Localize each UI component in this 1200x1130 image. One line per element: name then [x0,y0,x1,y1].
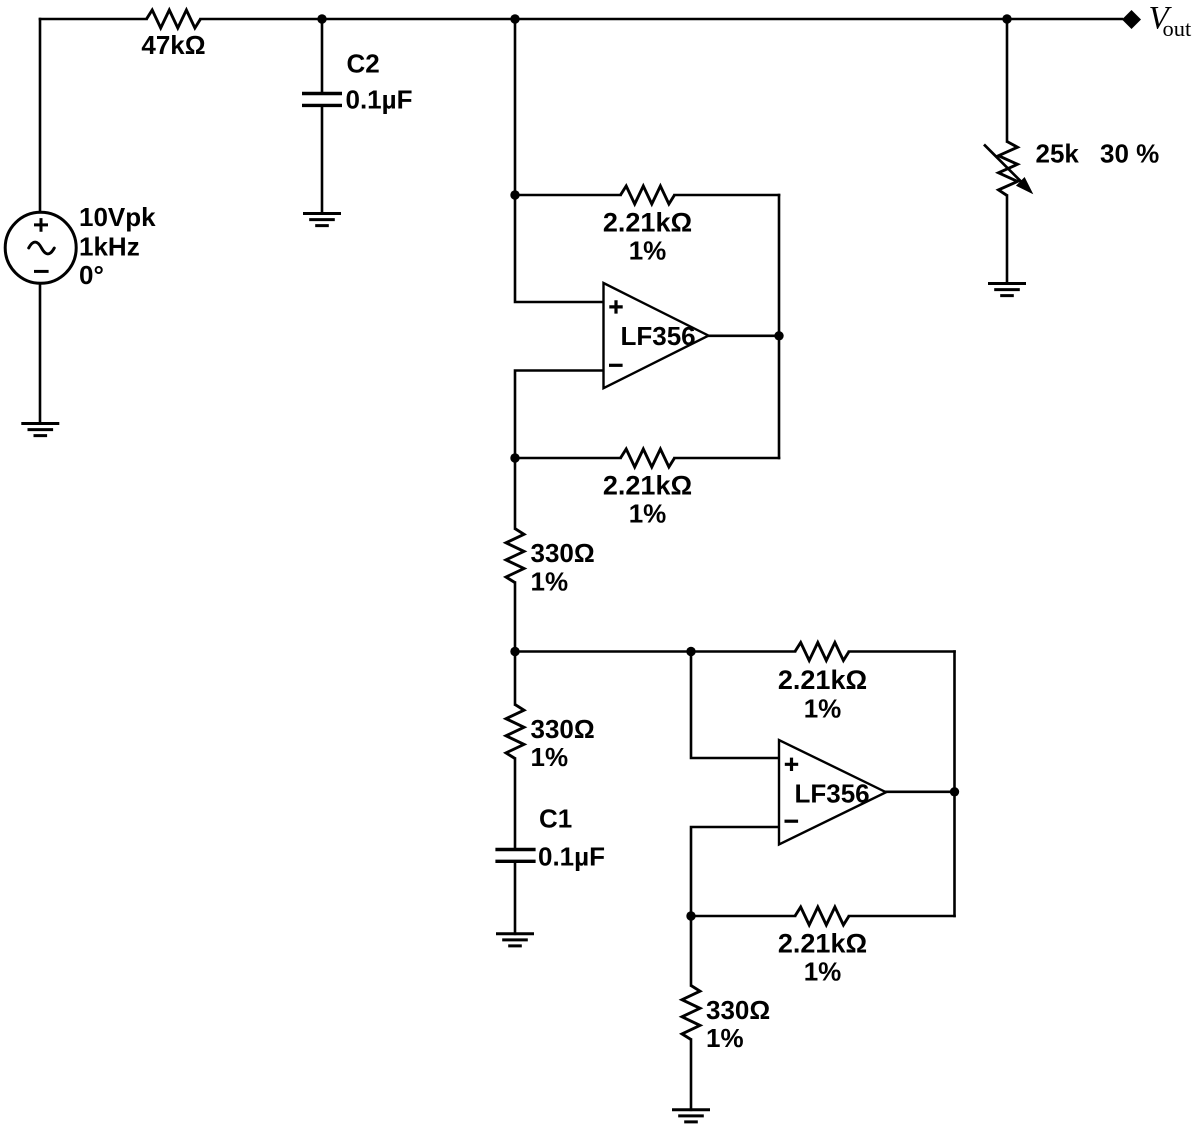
AC source sine wave [29,242,55,254]
op-amp U1 plus input sign [609,300,622,313]
wire R4 top lead [514,652,517,705]
op-amp U2 triangle [779,740,886,845]
resistor R3 330 zigzag [506,529,524,583]
wire stage2 to noninverting input [691,652,779,759]
svg-text:1%: 1% [531,742,569,772]
svg-text:0.1µF: 0.1µF [346,85,413,115]
wire top rail right of 47k [201,18,1123,21]
ground source [21,424,59,436]
resistor R2b 2.21k zigzag (stage1 bottom) [621,449,675,467]
capacitor C1 plates [495,850,535,862]
op-amp U1 triangle [604,283,709,388]
ground C2 [303,214,341,226]
junction node stage1 feedback top [510,190,519,199]
svg-text:out: out [1163,16,1193,41]
wire top rail left of 47k [40,18,147,21]
wire source top lead [39,19,42,212]
svg-text:1%: 1% [804,694,842,724]
resistor 47k zigzag [147,10,201,28]
wire source bottom lead [39,283,42,423]
svg-text:330Ω: 330Ω [706,995,770,1025]
wire R3 top lead [514,458,517,529]
wire stage2 inverting input [691,827,779,916]
svg-text:30 %: 30 % [1100,138,1159,168]
svg-text:2.21kΩ: 2.21kΩ [778,929,867,959]
op-amp U2 minus input sign [785,820,799,823]
svg-text:25k: 25k [1036,138,1080,168]
svg-text:0°: 0° [79,260,104,290]
potentiometer 25k zigzag [999,142,1018,196]
svg-text:C2: C2 [347,49,380,79]
junction node U1 output [774,331,783,340]
junction node mid rail left [510,647,519,656]
wire stage1 bottom feedback right [675,457,780,460]
resistor R4 330 zigzag [506,705,524,759]
wire stage2 bottom feedback left [691,915,795,918]
wire stage2 right vertical [953,652,956,917]
wire R6 bottom lead [690,1040,693,1110]
svg-text:1%: 1% [804,957,842,987]
node Vout diamond [1122,10,1141,29]
wire mid rail left [515,650,795,653]
wire R3 bottom lead [514,583,517,652]
svg-text:1%: 1% [629,236,667,266]
wire stage1 inverting input [515,371,604,459]
junction node U2 output [950,787,959,796]
wire mid rail right [849,650,955,653]
resistor R2a 2.21k zigzag (stage1 top) [621,186,675,204]
svg-text:1%: 1% [706,1023,744,1053]
svg-text:0.1µF: 0.1µF [538,842,605,872]
AC source minus sign [34,270,49,273]
svg-text:LF356: LF356 [795,779,870,809]
svg-text:47kΩ: 47kΩ [141,30,205,60]
resistor R5a 2.21k zigzag (stage2 top) [795,643,849,661]
junction node top-C2 [317,14,326,23]
junction node mid rail stage2 [686,647,695,656]
wire op-amp U1 output [709,334,780,337]
svg-text:2.21kΩ: 2.21kΩ [603,471,692,501]
wire stage1 top feedback right [675,194,780,197]
wire stage1 bottom feedback left [515,457,621,460]
junction node top-pot [1002,14,1011,23]
wire pot bottom lead [1006,196,1009,284]
junction node stage1 feedback bottom [510,453,519,462]
svg-text:2.21kΩ: 2.21kΩ [603,208,692,238]
op-amp U1 minus input sign [609,364,623,367]
resistor R6 330 zigzag [682,986,700,1040]
svg-text:LF356: LF356 [621,321,696,351]
op-amp U2 plus input sign [785,758,798,771]
wire stage1 left vertical to noninverting input [515,19,604,302]
wire C1 bottom lead [514,863,517,934]
ground C1 [496,934,534,946]
junction node top-stage1 [510,14,519,23]
wire pot top lead [1006,19,1009,142]
svg-text:10Vpk: 10Vpk [79,202,156,232]
svg-text:1%: 1% [629,499,667,529]
svg-text:330Ω: 330Ω [531,714,595,744]
wire C2 top lead [321,19,324,92]
ground R6 [672,1110,710,1122]
svg-text:1%: 1% [531,566,569,596]
svg-text:C1: C1 [539,804,572,834]
svg-text:330Ω: 330Ω [531,538,595,568]
wire op-amp U2 output [886,790,955,793]
capacitor C2 plates [302,94,342,106]
potentiometer arrow [984,145,1032,193]
resistor R5b 2.21k zigzag (stage2 bottom) [795,907,849,925]
AC source plus sign [34,218,48,232]
wire C2 bottom lead [321,107,324,213]
wire R6 top lead [690,916,693,986]
ground pot [988,284,1026,296]
wire stage1 top feedback left [515,194,621,197]
svg-text:1kHz: 1kHz [79,232,140,262]
svg-text:2.21kΩ: 2.21kΩ [778,665,867,695]
junction node stage2 feedback bottom [686,911,695,920]
wire stage2 bottom feedback right [849,915,955,918]
wire stage1 right vertical [778,195,781,458]
wire R4 to C1 [514,759,517,848]
AC source V1 circle [5,212,76,283]
